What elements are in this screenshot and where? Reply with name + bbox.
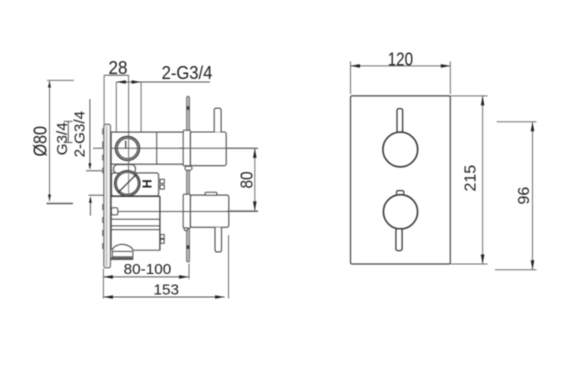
svg-text:80: 80 [237,171,256,188]
svg-text:96: 96 [516,187,533,205]
bottom port circle [115,171,140,196]
body top edge [110,131,190,133]
plate tab lower [184,228,187,231]
dim Ø80 extension bottom [47,203,74,205]
dim 96 [497,121,537,123]
top outlet box [190,132,226,166]
dim Ø80 line [49,81,51,201]
inlet dome [112,244,133,250]
knob 2 stem [396,229,402,251]
upper body right edge [156,132,158,164]
knob 2 nub [397,191,404,196]
centerline re-draw over bottom box [180,211,258,213]
ext line D [140,82,142,132]
centerline re-draw over top box [180,147,258,149]
lower box bottom [133,249,160,251]
ext line C (port centerline) [128,75,130,170]
ext line A [103,75,105,124]
bottom outlet bracket [183,194,190,228]
inlet gasket bar [111,257,133,260]
knob 1 [383,132,418,167]
ext line right of 153 [228,235,230,299]
valve body centerline bottom [111,211,258,213]
top nipple [214,108,221,132]
bottom box top tab [205,192,217,195]
bottom nipple [215,227,222,252]
inlet boss [112,251,133,256]
dim Ø80 extension top [47,79,74,81]
flange nubs [102,129,104,250]
body lines bottom [111,218,160,220]
svg-text:153: 153 [153,282,179,299]
port tangent line top [86,170,113,172]
bracket right of cartridge [160,179,164,189]
trim plate [351,96,451,264]
port collar between circles [114,165,136,174]
lower bracket [160,235,164,244]
svg-text:2-G3/4: 2-G3/4 [162,62,213,83]
lower body right edge dark [159,196,161,250]
left port tab [111,208,117,215]
ext line left shared [102,269,104,299]
valve body centerline top [93,147,258,149]
top port circle [116,136,140,160]
body left edge [110,132,112,250]
leader 2-G3/4 horizontal shelf [116,81,210,83]
bottom outlet box [190,195,228,227]
dim 28 shelf [104,74,129,76]
svg-text:Ø80: Ø80 [30,126,51,156]
dim 215 [450,95,487,97]
dim 80 right: ext lines [227,147,258,149]
ext line right of 80-100 [188,264,190,280]
dim 80 line [254,148,256,211]
plate tab upper [185,166,192,170]
svg-text:120: 120 [388,49,413,70]
wall plate edge-on [187,96,190,262]
cartridge box [112,173,159,196]
leader 2-G3/4 down arrow [89,99,91,169]
body line under top pipe [110,163,190,165]
ext line B [115,82,117,132]
leader 2-G3/4 up arrow [89,198,91,216]
knob 2 [383,195,417,229]
lower body section line [111,195,160,197]
leader G3/4 shelf [67,121,69,142]
svg-text:215: 215 [463,165,480,192]
svg-text:80-100: 80-100 [124,261,172,278]
wall flange [104,124,111,267]
svg-text:2-G3/4: 2-G3/4 [72,111,89,157]
svg-text:H: H [140,179,154,188]
knob 1 stem [397,109,403,134]
port tangent line bottom [89,194,114,196]
top outlet bracket [183,130,190,165]
